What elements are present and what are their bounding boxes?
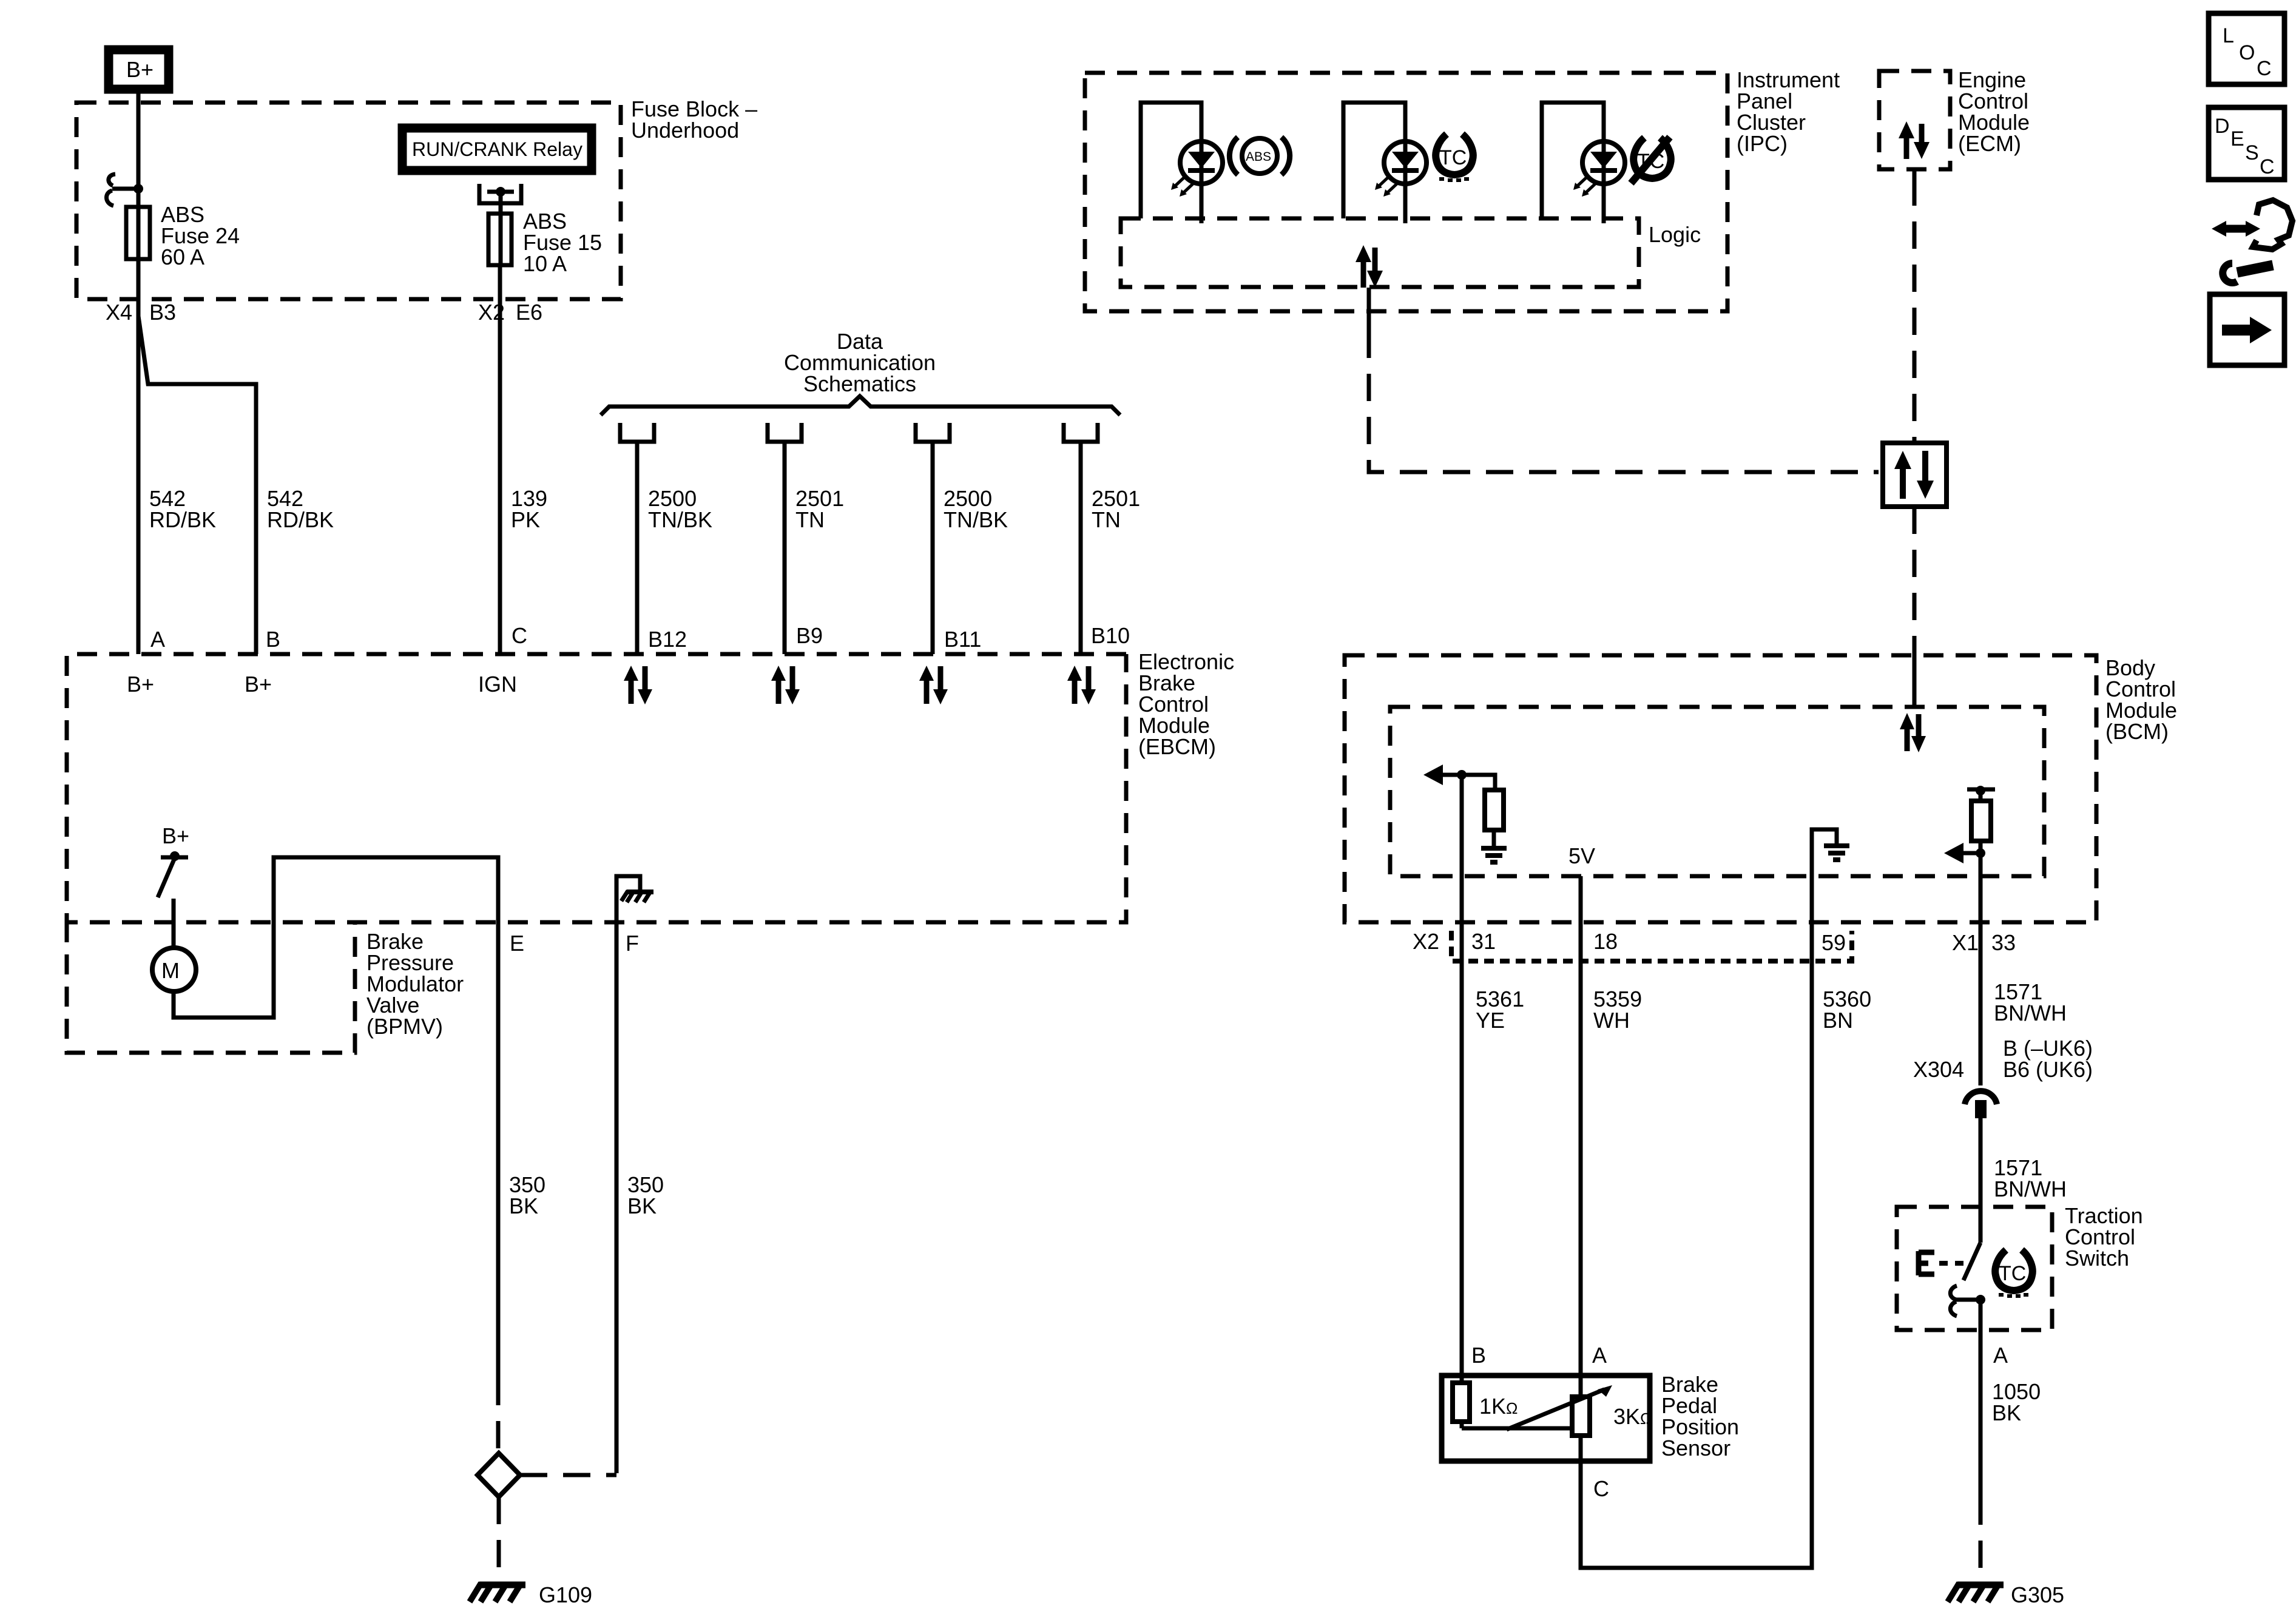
- svg-text:B: B: [1471, 1343, 1486, 1368]
- connector bracket wire B11: [916, 423, 950, 654]
- splice S: [478, 1453, 520, 1497]
- LED indicator lamp 1: [1171, 141, 1223, 197]
- svg-text:B9: B9: [796, 623, 823, 648]
- icon TC switch: [1995, 1250, 2033, 1298]
- svg-text:B3: B3: [149, 300, 176, 325]
- label Data Communication Schematics: [784, 329, 936, 396]
- instrument panel cluster box: [1085, 73, 1727, 311]
- wire BCM data entry: [1913, 644, 1917, 707]
- ground G109: [470, 1583, 525, 1602]
- svg-text:C: C: [2257, 57, 2272, 80]
- label 2501 TN (B9): [795, 486, 844, 532]
- svg-text:18: 18: [1593, 929, 1618, 954]
- icon ABS warning: [1229, 137, 1289, 175]
- LED indicator lamp 2: [1375, 141, 1427, 197]
- svg-text:G305: G305: [2011, 1582, 2064, 1607]
- svg-text:Sensor: Sensor: [1661, 1436, 1730, 1460]
- potentiometer 3K: [1572, 1373, 1590, 1463]
- label Brake Pressure Modulator Valve (BPMV): [366, 929, 464, 1039]
- node B+ battery terminal: [109, 50, 169, 89]
- label 350 BK (F): [627, 1172, 664, 1218]
- icon TC indicator: [1436, 134, 1473, 182]
- svg-text:F: F: [626, 931, 639, 956]
- svg-text:TC: TC: [1999, 1262, 2026, 1285]
- svg-text:E: E: [2230, 127, 2244, 150]
- dashed data wire IPC to ECM junction: [1369, 331, 1879, 472]
- ground symbol pin F internal: [616, 876, 653, 922]
- svg-text:B+: B+: [245, 672, 272, 697]
- svg-text:IGN: IGN: [478, 672, 517, 697]
- wire 1571 BN/WH pin 33: [1979, 853, 1983, 1085]
- svg-text:YE: YE: [1476, 1008, 1505, 1033]
- node B+ internal EBCM: [161, 823, 189, 861]
- dashed data wire junction to BCM: [1913, 507, 1917, 644]
- brake pedal position sensor box: [1442, 1376, 1650, 1461]
- label 2500 TN/BK (B11): [944, 486, 1008, 532]
- svg-text:(BPMV): (BPMV): [366, 1014, 443, 1039]
- svg-text:O: O: [2239, 41, 2255, 64]
- switch contact upper: [1979, 1207, 1983, 1243]
- pin label X4 B3: [106, 300, 176, 325]
- svg-text:31: 31: [1471, 929, 1496, 954]
- wiper wire: [1462, 1426, 1572, 1431]
- wire 542 RD/BK to pin A: [137, 261, 141, 654]
- label 5360 BN: [1823, 987, 1871, 1033]
- engine control module box: [1879, 71, 1950, 169]
- label 5359 WH: [1593, 987, 1642, 1033]
- wire 5360 BN pin 59: [1581, 922, 1812, 1568]
- switch actuator E symbol: [1919, 1251, 1963, 1275]
- label ABS Fuse 24 60 A: [161, 202, 240, 269]
- label 139 PK: [511, 486, 547, 532]
- svg-text:PK: PK: [511, 507, 540, 532]
- fuse F15: [488, 214, 512, 265]
- svg-text:X2: X2: [1413, 929, 1439, 954]
- lamp circuit 3 frame: [1542, 103, 1604, 223]
- connector bracket wire B12: [620, 423, 654, 654]
- connector bracket wire B9: [768, 423, 802, 654]
- pin label X2 E6: [478, 300, 542, 325]
- svg-text:TN/BK: TN/BK: [944, 507, 1008, 532]
- svg-text:BK: BK: [1992, 1400, 2021, 1425]
- label 1050 BK: [1992, 1379, 2041, 1425]
- svg-text:E6: E6: [516, 300, 542, 325]
- RUN/CRANK Relay box: [402, 128, 592, 170]
- svg-text:C: C: [1593, 1476, 1609, 1501]
- svg-text:TN/BK: TN/BK: [648, 507, 712, 532]
- icon LOC box: [2209, 13, 2284, 84]
- svg-text:TN: TN: [795, 507, 825, 532]
- svg-text:Switch: Switch: [2065, 1246, 2129, 1271]
- wire TC switch to ground: [1979, 1300, 1983, 1578]
- label ABS Fuse 15 10 A: [523, 209, 602, 276]
- svg-text:RD/BK: RD/BK: [267, 507, 334, 532]
- label 5361 YE: [1476, 987, 1524, 1033]
- svg-text:TN: TN: [1092, 507, 1121, 532]
- wire 31 to sensor pin B: [1460, 775, 1464, 1373]
- inline connector X304: [1965, 1091, 1997, 1118]
- switch lower contact hook: [1950, 1286, 1985, 1316]
- label 2500 TN/BK (B12): [648, 486, 712, 532]
- svg-text:Logic: Logic: [1649, 222, 1701, 247]
- svg-text:B+: B+: [127, 672, 154, 697]
- svg-text:X1: X1: [1952, 930, 1979, 955]
- dashed wire splice to F wire: [520, 1473, 616, 1477]
- svg-text:S: S: [2245, 141, 2259, 164]
- label Body Control Module (BCM): [2105, 655, 2177, 744]
- svg-text:M: M: [161, 958, 180, 983]
- circuit breaker hook at fuse 24: [106, 174, 138, 206]
- wire branch diagonal to pin B: [138, 316, 256, 654]
- ground symbol pin 59 internal: [1812, 829, 1849, 922]
- svg-text:60 A: 60 A: [161, 245, 204, 269]
- label B (-UK6) B6 (UK6): [2003, 1036, 2093, 1082]
- junction dot at fuse 24: [133, 184, 143, 194]
- icon DESC box: [2209, 107, 2284, 180]
- junction dot relay pin: [496, 187, 505, 197]
- potentiometer wiper arrow: [1507, 1385, 1612, 1430]
- svg-text:A: A: [150, 627, 165, 652]
- label Electronic Brake Control Module (EBCM): [1138, 649, 1234, 759]
- pull-up circuit pin 33: [1944, 786, 1995, 863]
- svg-text:5V: 5V: [1568, 843, 1595, 868]
- serial data arrows junction box: [1894, 451, 1934, 499]
- relay pin receptacle bracket: [479, 184, 521, 203]
- svg-text:D: D: [2215, 115, 2230, 138]
- svg-text:B+: B+: [126, 57, 154, 82]
- fuse F24: [126, 207, 150, 259]
- svg-text:TC: TC: [1439, 146, 1467, 169]
- label 350 BK (E): [509, 1172, 545, 1218]
- label 542 RD/BK (A): [149, 486, 216, 532]
- wire switch to motor: [172, 899, 176, 949]
- signal ground pin 31 resistor: [1481, 848, 1507, 862]
- pump motor switch: [158, 858, 175, 897]
- svg-text:RUN/CRANK Relay: RUN/CRANK Relay: [412, 138, 582, 160]
- wire IPC serial data down: [1367, 288, 1371, 331]
- svg-text:BK: BK: [627, 1193, 657, 1218]
- svg-text:L: L: [2223, 24, 2234, 47]
- svg-text:X4: X4: [106, 300, 132, 325]
- wire 18 to sensor pin A: [1579, 876, 1583, 1373]
- svg-text:E: E: [510, 931, 524, 956]
- lamp circuit 1 frame: [1141, 103, 1201, 223]
- label 1571 BN/WH upper: [1994, 979, 2067, 1025]
- svg-text:10 A: 10 A: [523, 251, 567, 276]
- icon TC off indicator: [1631, 137, 1671, 183]
- svg-text:B10: B10: [1091, 623, 1130, 648]
- svg-text:(ECM): (ECM): [1958, 131, 2021, 156]
- wire 139 PK to pin C: [498, 267, 502, 654]
- label Traction Control Switch: [2065, 1203, 2143, 1271]
- svg-text:RD/BK: RD/BK: [149, 507, 216, 532]
- logic box: [1121, 218, 1639, 287]
- svg-text:Underhood: Underhood: [631, 118, 739, 143]
- svg-text:A: A: [1592, 1343, 1607, 1368]
- connector bracket wire B10: [1064, 423, 1098, 654]
- BCM inner logic box: [1390, 707, 2044, 876]
- pull-down circuit pin 31: [1423, 765, 1504, 846]
- svg-text:BN: BN: [1823, 1008, 1853, 1033]
- svg-text:B+: B+: [162, 823, 189, 848]
- svg-text:B6 (UK6): B6 (UK6): [2003, 1057, 2093, 1082]
- wire relay to fuse 15: [499, 192, 503, 267]
- svg-text:(EBCM): (EBCM): [1138, 734, 1216, 759]
- electronic brake control module box: [67, 654, 1126, 922]
- body control module box: [1345, 655, 2096, 922]
- dashed wire splice to ground: [497, 1497, 501, 1578]
- label 1571 BN/WH lower: [1994, 1155, 2067, 1201]
- icon service hand wrench: [2212, 200, 2292, 283]
- svg-text:BK: BK: [509, 1193, 538, 1218]
- brake pressure modulator valve box: [67, 922, 355, 1053]
- serial data arrows IPC: [1356, 245, 1383, 288]
- svg-text:33: 33: [1991, 930, 2016, 955]
- label Brake Pedal Position Sensor: [1661, 1372, 1739, 1460]
- icon arrow box: [2210, 294, 2284, 365]
- wire motor to pin E: [174, 857, 498, 1018]
- svg-text:(IPC): (IPC): [1737, 131, 1788, 156]
- resistor 1K: [1453, 1373, 1470, 1428]
- wire 350 BK pin E: [496, 922, 501, 1453]
- wire B+ to fuse 24: [137, 93, 141, 261]
- label Instrument Panel Cluster (IPC): [1737, 67, 1840, 156]
- brace over data wires: [601, 396, 1120, 415]
- serial data arrows B11: [919, 666, 948, 704]
- svg-text:C: C: [2260, 155, 2275, 178]
- svg-text:WH: WH: [1593, 1008, 1630, 1033]
- dashed data wire ECM down: [1913, 169, 1917, 443]
- svg-text:B: B: [266, 627, 280, 652]
- svg-text:X304: X304: [1913, 1057, 1964, 1082]
- svg-text:G109: G109: [539, 1582, 592, 1607]
- connector X2 dotted line: [1451, 931, 1852, 961]
- data link junction box: [1883, 443, 1947, 507]
- svg-text:59: 59: [1822, 930, 1846, 955]
- svg-text:B12: B12: [648, 627, 687, 652]
- label Engine Control Module (ECM): [1958, 67, 2030, 156]
- pump motor M: [152, 948, 196, 991]
- traction control switch box: [1897, 1207, 2052, 1330]
- lamp circuit 2 frame: [1343, 103, 1405, 223]
- switch blade: [1963, 1243, 1980, 1280]
- label 2501 TN (B10): [1092, 486, 1140, 532]
- fuse block underhood box: [76, 103, 621, 299]
- serial data arrows BCM: [1900, 713, 1926, 752]
- svg-text:A: A: [1993, 1343, 2008, 1368]
- svg-text:Schematics: Schematics: [803, 371, 916, 396]
- svg-text:ABS: ABS: [1246, 150, 1271, 164]
- svg-text:C: C: [512, 623, 527, 648]
- serial data arrows B10: [1067, 666, 1096, 704]
- wire 350 BK pin F: [615, 922, 619, 1473]
- svg-text:(BCM): (BCM): [2105, 719, 2169, 744]
- label Fuse Block Underhood: [631, 96, 757, 143]
- svg-text:BN/WH: BN/WH: [1994, 1001, 2067, 1025]
- svg-text:B11: B11: [944, 627, 981, 652]
- wire 1571 BN/WH to TC switch: [1979, 1118, 1983, 1207]
- ground G305: [1948, 1583, 2004, 1602]
- label 542 RD/BK (B): [267, 486, 334, 532]
- LED indicator lamp 3: [1573, 141, 1625, 197]
- serial data arrows ECM: [1899, 121, 1930, 159]
- serial data arrows B9: [771, 666, 800, 704]
- serial data arrows B12: [624, 666, 652, 704]
- svg-text:BN/WH: BN/WH: [1994, 1176, 2067, 1201]
